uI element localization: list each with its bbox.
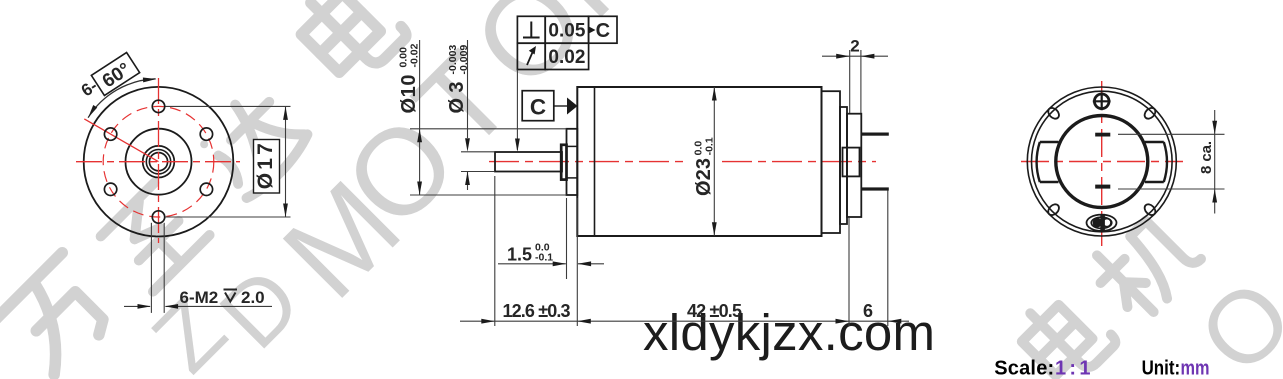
- watermark char ji right: [1085, 205, 1204, 324]
- 6-M2 extension line left: [150, 223, 152, 313]
- svg-text:-0.009: -0.009: [458, 45, 470, 75]
- ring circle: [1032, 91, 1173, 232]
- terminal lower: [861, 187, 889, 190]
- 8ca extension lines: [1118, 133, 1225, 135]
- terminal bar upper: [1095, 133, 1110, 137]
- svg-text:C: C: [596, 20, 610, 42]
- svg-text:-0.1: -0.1: [704, 137, 716, 155]
- outer circle: [1027, 87, 1176, 236]
- screw head: [1094, 94, 1109, 109]
- svg-text:Scale:: Scale:: [994, 358, 1054, 379]
- svg-text:6: 6: [863, 301, 873, 321]
- terminal bar lower: [1095, 185, 1110, 189]
- svg-text:12.6 ±0.3: 12.6 ±0.3: [503, 301, 571, 321]
- dia3 extension lines: [461, 151, 494, 153]
- dia3 dimension line: [467, 40, 469, 138]
- svg-text:1.5: 1.5: [507, 244, 532, 264]
- rear ring A: [822, 91, 841, 233]
- svg-text:C: C: [530, 95, 546, 120]
- dia17 extension line bottom: [166, 216, 291, 218]
- retaining ring: [561, 145, 566, 180]
- slot hole 45deg: [1143, 106, 1158, 121]
- svg-text:Ø17: Ø17: [254, 143, 277, 189]
- end cap circle: [1056, 116, 1148, 208]
- red vertical centerline: [1101, 81, 1103, 246]
- shaft circles: [143, 146, 175, 178]
- svg-text:2: 2: [850, 36, 859, 55]
- svg-text:0.05: 0.05: [548, 21, 585, 42]
- svg-text:8 ca.: 8 ca.: [1198, 141, 1215, 174]
- bottom extension lines: [494, 176, 496, 326]
- hole 30deg: [200, 128, 212, 140]
- dim 1.5 extension lines: [566, 198, 568, 279]
- 6-M2 extension line right: [163, 223, 165, 313]
- FCF leader to shaft: [516, 70, 518, 151]
- REAR VIEW: [1021, 81, 1225, 246]
- rear center boss: [843, 148, 860, 177]
- datum leader and triangle: [554, 105, 567, 107]
- bottom dimension line: [460, 320, 909, 322]
- red radial line 150deg: [84, 119, 158, 162]
- perpendicularity symbol: [523, 22, 540, 38]
- runout symbol: [527, 50, 534, 65]
- svg-text:2.0: 2.0: [241, 288, 265, 307]
- rear ring B: [840, 107, 847, 224]
- bolt circle red dashed: [103, 106, 214, 217]
- front flange line: [594, 87, 596, 236]
- left tab: [1040, 142, 1059, 182]
- dia17 extension line top: [166, 105, 291, 107]
- red centerline: [489, 161, 688, 163]
- slot hole 135deg: [1046, 106, 1061, 121]
- svg-text:-0.02: -0.02: [409, 43, 421, 67]
- dia10 extension lines: [410, 128, 567, 130]
- angle arc 60deg: [88, 79, 156, 118]
- 6-M2 dimension line: [124, 305, 150, 307]
- hole 270deg: [152, 211, 164, 223]
- dia10 dimension line: [419, 40, 421, 195]
- 8ca dimension line: [1214, 110, 1216, 214]
- front face outer circle: [84, 87, 234, 237]
- retaining ring seat lines: [567, 145, 577, 147]
- dim 2 extension lines: [849, 50, 851, 113]
- hole 330deg: [200, 183, 212, 195]
- hole 150deg: [104, 128, 116, 140]
- dia17 dimension line: [285, 106, 287, 217]
- bottom oval bushing: [1087, 215, 1117, 231]
- datum C box: [522, 91, 554, 121]
- motor body: [577, 87, 821, 236]
- dia17 label box: [254, 140, 280, 194]
- svg-text:Ø23: Ø23: [693, 158, 715, 196]
- svg-text:6-M2: 6-M2: [180, 288, 219, 307]
- svg-text:Unit:: Unit:: [1142, 358, 1181, 379]
- boss circle: [126, 129, 192, 195]
- LEFT VIEW: [76, 52, 291, 312]
- red vertical centerline: [158, 78, 160, 243]
- boss: [567, 129, 578, 195]
- svg-text:mm: mm: [1181, 358, 1210, 379]
- watermark char dian: [290, 0, 409, 88]
- slot hole 315deg: [1143, 202, 1158, 217]
- watermark char wan: [0, 253, 122, 379]
- slot hole 225deg: [1046, 202, 1061, 217]
- FCF frame row1 perpendicularity: [517, 16, 617, 69]
- hole 210deg: [104, 183, 116, 195]
- dim 1.5 dimension line: [498, 263, 566, 265]
- svg-text:Ø10: Ø10: [398, 75, 420, 114]
- hole 90deg: [152, 100, 164, 112]
- terminal upper: [861, 133, 889, 136]
- rear cap: [847, 114, 861, 217]
- red horizontal centerline: [1021, 161, 1183, 163]
- label 6-60 box: [91, 52, 140, 95]
- red horizontal centerline: [76, 161, 240, 163]
- watermark char da: [194, 83, 313, 202]
- right tab: [1145, 142, 1164, 182]
- dim 2 dimension line: [822, 55, 888, 57]
- watermark char dian right: [1012, 284, 1118, 379]
- shaft: [495, 152, 562, 172]
- svg-text:0.02: 0.02: [548, 47, 585, 68]
- watermark char zhi: [99, 181, 209, 291]
- svg-text:42 ±0.5: 42 ±0.5: [687, 301, 742, 321]
- dia23 dimension line: [713, 87, 715, 236]
- scale and unit labels: [994, 358, 1209, 379]
- MIDDLE VIEW: [398, 16, 910, 326]
- svg-text:-0.1: -0.1: [535, 252, 553, 264]
- svg-text:1:1: 1:1: [1055, 358, 1091, 379]
